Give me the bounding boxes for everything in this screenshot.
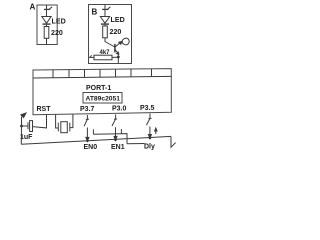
pin divider 7 xyxy=(151,69,153,77)
svg-text:220: 220 xyxy=(110,28,122,36)
box A enclosure xyxy=(37,5,57,45)
svg-text:P3.7: P3.7 xyxy=(80,106,95,113)
lower short rail xyxy=(127,143,145,145)
capacitor C1 left plate xyxy=(27,122,29,129)
wire top lead LED A xyxy=(46,5,48,9)
switch S1 second terminal hook xyxy=(92,129,94,134)
transistor Q1 emitter with arrow xyxy=(115,50,119,54)
switch S1 EN0 top stub xyxy=(86,115,88,119)
svg-text:PORT-1: PORT-1 xyxy=(86,85,111,92)
svg-text:AT89c2051: AT89c2051 xyxy=(86,96,121,103)
pin strip line xyxy=(33,76,171,78)
switch S3 blade xyxy=(146,119,150,126)
box B enclosure xyxy=(89,5,132,64)
bus end arrow to supply xyxy=(171,136,176,147)
pin divider 1 xyxy=(52,70,54,78)
pin divider 5 xyxy=(115,69,117,77)
crystal X1 right plate xyxy=(69,123,71,132)
switch S1 blade xyxy=(84,119,87,126)
switch S3 second terminal stub with arrow xyxy=(155,130,157,135)
switch S3 Dly top stub xyxy=(149,114,151,119)
wire xyxy=(46,10,48,17)
pin divider 6 xyxy=(130,69,132,77)
pin divider 3 xyxy=(84,70,86,78)
switch S1 lower wire with arrow xyxy=(86,128,88,138)
svg-text:P3.0: P3.0 xyxy=(112,105,127,112)
crystal X1 right wire xyxy=(70,114,73,127)
wire top lead LED B xyxy=(104,5,106,9)
crystal X1 left wire xyxy=(56,115,59,128)
lead tick xyxy=(89,55,91,58)
svg-text:P3.5: P3.5 xyxy=(140,105,155,112)
LED D1 cathode bar xyxy=(43,23,51,25)
svg-text:220: 220 xyxy=(51,29,63,37)
LED D2 triangle xyxy=(100,17,109,24)
svg-text:A: A xyxy=(30,3,36,12)
switch S2 EN1 top stub xyxy=(115,115,117,120)
junction dot base/emitter node xyxy=(117,56,120,59)
svg-text:LED: LED xyxy=(111,16,125,24)
svg-text:1uF: 1uF xyxy=(20,134,33,141)
LED D1 triangle xyxy=(42,17,51,24)
wire xyxy=(104,25,106,26)
wire xyxy=(46,25,48,27)
emitter wire down xyxy=(117,54,119,64)
transistor Q1 base bar xyxy=(114,44,116,53)
svg-text:Dly: Dly xyxy=(144,143,155,150)
svg-text:EN0: EN0 xyxy=(84,144,98,151)
wire cap to node xyxy=(22,125,29,127)
svg-text:RST: RST xyxy=(37,106,52,113)
switch S2 second terminal hook xyxy=(120,129,122,134)
LED B emission arrow xyxy=(102,8,108,10)
svg-text:EN1: EN1 xyxy=(111,144,125,151)
LED D2 cathode bar xyxy=(101,23,109,25)
RST pin wire xyxy=(33,115,47,128)
IC U1 PORT-1 box outline xyxy=(33,69,171,115)
resistor 4k7 left lead xyxy=(90,56,94,58)
svg-text:4k7: 4k7 xyxy=(100,50,111,56)
transistor collector flourish arrow xyxy=(115,42,121,47)
resistor R2 220 xyxy=(103,26,108,38)
part label box AT89c2051 xyxy=(83,93,122,104)
switch S3 lower wire with arrow xyxy=(149,127,151,136)
switch S2 blade xyxy=(112,119,116,126)
crystal X1 left plate xyxy=(57,123,59,132)
supply arrow xyxy=(21,117,23,126)
pin divider 4 xyxy=(99,69,101,77)
capacitor C1 right plate xyxy=(30,121,33,132)
curl xyxy=(122,38,129,45)
wire node down to bus xyxy=(20,126,22,144)
resistor 4k7 right lead xyxy=(112,56,118,58)
switch S2 lower wire with arrow xyxy=(115,127,117,137)
rail connecting switch second terminals xyxy=(93,134,127,144)
LED A emission arrow xyxy=(44,8,50,10)
crystal X1 body xyxy=(61,122,68,133)
resistor R1 220 xyxy=(44,27,49,39)
wire bottom lead A xyxy=(46,38,48,44)
wire collector lead xyxy=(105,38,115,47)
ground bus wire xyxy=(21,136,171,144)
svg-text:B: B xyxy=(92,8,98,17)
pin divider 2 xyxy=(68,70,70,78)
svg-text:LED: LED xyxy=(52,18,66,26)
resistor R3 4k7 xyxy=(94,55,112,60)
junction dot RST node xyxy=(20,125,23,128)
wire xyxy=(104,10,106,17)
